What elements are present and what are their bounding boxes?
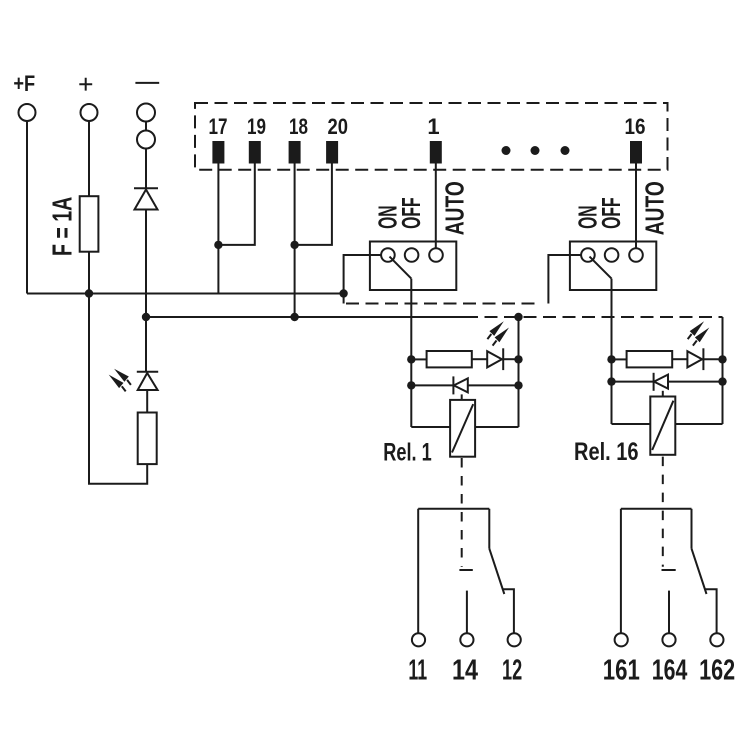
svg-text:1: 1 [427, 114, 439, 139]
LED D3 cathode bar [502, 348, 504, 370]
contact K1 blade [489, 549, 504, 594]
wire bottom loop right Rel1 [475, 426, 518, 428]
wire R3 to LED D6 [672, 358, 687, 360]
wire S1 output [410, 279, 412, 360]
pin 16 [630, 141, 642, 164]
wire D5 to right rail [668, 381, 723, 383]
S1 blade [390, 257, 412, 279]
junction right rail row2 [514, 381, 522, 389]
LED D2 [138, 373, 158, 390]
terminal 11 circle [412, 633, 425, 646]
wire S1 ON feed [344, 255, 381, 294]
wire − bus to LED D2 [145, 317, 147, 372]
pin 20 [326, 141, 338, 164]
wire row1 to resistor R3 [612, 358, 627, 360]
resistor R2 [427, 351, 472, 367]
terminal 162 circle [710, 633, 723, 646]
terminal + label [79, 78, 92, 91]
svg-text:20: 20 [328, 114, 349, 139]
terminal 14 circle [460, 633, 473, 646]
svg-text:14: 14 [452, 654, 478, 686]
relay coil K1 [450, 400, 475, 457]
S16 blade [590, 257, 612, 279]
wire between − circles [145, 122, 147, 131]
S16 AUTO contact [629, 248, 643, 262]
diode D5 [654, 375, 668, 389]
junction + column on +24V bus [85, 289, 93, 297]
terminal +F circle [19, 104, 36, 121]
coil K1 diagonal [452, 404, 473, 452]
wire pin 16 to AUTO contact S16 [635, 164, 637, 249]
svg-text:19: 19 [247, 114, 266, 139]
contact K1 top bar [418, 508, 489, 510]
junction right rail row1 [514, 355, 522, 363]
wire bottom loop right Rel16 [675, 423, 722, 425]
pin 19 [249, 141, 261, 164]
svg-text:AUTO: AUTO [640, 181, 670, 235]
LED D2 cathode bar [137, 371, 158, 373]
− bus solid segment [146, 316, 465, 318]
svg-text:16: 16 [625, 114, 646, 139]
resistor R1 [138, 413, 157, 465]
wire contact K1 common [488, 509, 490, 549]
wire to terminal 162 [705, 589, 717, 633]
junction right rail on − bus [514, 313, 522, 321]
svg-text:11: 11 [408, 654, 427, 686]
wire row1 to resistor R2 [411, 358, 426, 360]
S1 ON contact [381, 248, 395, 262]
LED D6 cathode bar [702, 348, 704, 370]
S16 OFF contact [605, 248, 619, 262]
wire LED D3 to right rail [503, 358, 518, 360]
LED D6 [687, 351, 702, 367]
diode D4 [454, 378, 468, 392]
S16 ON contact [581, 248, 595, 262]
diode D1 [135, 190, 158, 210]
terminal − circle lower [137, 131, 155, 149]
wire S16 ON feed [548, 255, 581, 304]
wire to terminal 164 [668, 591, 670, 634]
wire row2 to diode D5 [612, 381, 654, 383]
wire LED D2 to resistor R1 [146, 390, 148, 413]
switch S1 box [370, 242, 456, 291]
svg-text:161: 161 [603, 655, 640, 687]
wire row2 to diode D4 [411, 384, 453, 386]
wire + to fuse [88, 121, 90, 196]
fuse F1 [80, 196, 99, 252]
contact 14 fixed bar [459, 569, 472, 571]
junction left rail row2 [407, 381, 415, 389]
terminal − label [135, 82, 159, 84]
module enclosure dashed box [195, 103, 668, 170]
terminal 161 circle [615, 633, 628, 646]
svg-text:162: 162 [699, 655, 735, 687]
svg-text:17: 17 [209, 114, 228, 139]
wire D4 to right rail [468, 384, 519, 386]
junction bus to switch S1 feed [339, 289, 347, 297]
diode D5 cathode bar [653, 373, 655, 391]
wire coil K16 top stub [662, 391, 664, 397]
wire S16 output [611, 279, 613, 360]
wire pin 20 tie [295, 164, 332, 245]
relay coil K16 [650, 397, 675, 455]
junction 17/19 tie [214, 241, 222, 249]
wire coil K1 top stub [461, 394, 463, 400]
wire +F column to +24V bus [26, 121, 28, 294]
wire to terminal 161 [620, 509, 622, 633]
contact K16 top bar [621, 508, 692, 510]
left rail Rel16 [611, 359, 613, 424]
contact K16 blade [692, 549, 707, 594]
coil K16 diagonal [652, 401, 673, 450]
wire pin 18 down to − bus [294, 164, 296, 318]
LED D6 arrows [688, 321, 710, 345]
wire pin 19 tie [218, 164, 254, 245]
S1 AUTO contact [429, 248, 443, 262]
wire − to diode D1 [145, 149, 147, 189]
switch S16 box [570, 242, 656, 291]
junction 18/20 tie [290, 241, 298, 249]
stub bus to dashed continuation [343, 294, 345, 304]
junction right rail row2 Rel16 [718, 377, 726, 385]
junction S16 output row1 [607, 355, 615, 363]
terminal 12 circle [508, 633, 521, 646]
left rail Rel1 [410, 359, 412, 427]
wire to terminal 14 [466, 591, 468, 634]
dashed bus continuation to S16 [346, 303, 539, 305]
mechanical link K16 dashed [662, 457, 664, 567]
wire contact K16 common [691, 509, 693, 549]
junction pin 18 on − bus [290, 313, 298, 321]
terminal − circle upper [137, 104, 155, 122]
wire diode D1 to − bus [145, 210, 147, 318]
pin 17 [212, 141, 224, 164]
ellipsis dots [502, 146, 570, 155]
terminal 164 circle [662, 633, 675, 646]
svg-text:F = 1A: F = 1A [47, 197, 78, 256]
svg-text:OFF: OFF [596, 197, 626, 229]
wire pin 17 down to +24V bus [217, 164, 219, 294]
wire bottom loop left Rel1 [411, 426, 450, 428]
wire to terminal 12 [503, 589, 514, 633]
pin 1 [430, 141, 442, 164]
S1 OFF contact [405, 248, 419, 262]
svg-text:18: 18 [289, 114, 308, 139]
contact 164 fixed bar [662, 569, 676, 571]
resistor R3 [627, 351, 673, 367]
svg-text:164: 164 [652, 655, 688, 687]
wire R2 to LED D3 [472, 358, 487, 360]
+24V bus [27, 293, 344, 295]
junction right rail row1 Rel16 [718, 355, 726, 363]
mechanical link K1 dashed [461, 458, 463, 567]
wire + column below fuse through bus to indicator return [89, 252, 147, 484]
diode D4 cathode bar [452, 376, 454, 394]
junction S1 output row1 [407, 355, 415, 363]
svg-text:12: 12 [502, 654, 522, 686]
svg-text:AUTO: AUTO [440, 181, 470, 235]
diode D1 cathode bar [134, 187, 158, 189]
terminal + circle [81, 104, 98, 121]
svg-text:+F: +F [13, 71, 35, 96]
pin 18 [289, 141, 301, 164]
LED D2 arrows [109, 369, 131, 392]
wire pin 1 to AUTO contact S1 [435, 164, 437, 249]
right rail Rel1 [518, 317, 520, 427]
− bus dashed continuation [465, 316, 723, 318]
junction left rail row2 Rel16 [607, 377, 615, 385]
LED D3 arrows [487, 321, 509, 345]
wire LED D6 to right rail [703, 358, 722, 360]
right rail Rel16 [722, 317, 724, 424]
junction − column on − bus [142, 313, 150, 321]
svg-text:Rel. 16: Rel. 16 [574, 438, 639, 466]
wire bottom loop left Rel16 [612, 423, 651, 425]
LED D3 [487, 351, 502, 367]
svg-text:OFF: OFF [396, 197, 426, 229]
wire to terminal 11 [417, 509, 419, 633]
svg-text:Rel. 1: Rel. 1 [383, 439, 431, 467]
